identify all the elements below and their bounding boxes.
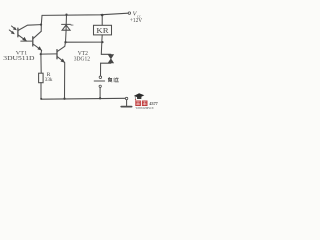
svg-text:WWW.DZDIY.CN: WWW.DZDIY.CN bbox=[136, 106, 155, 110]
svg-text:3DU511D: 3DU511D bbox=[3, 55, 35, 62]
svg-text:3DG12: 3DG12 bbox=[74, 56, 90, 62]
svg-text:+12V: +12V bbox=[130, 18, 143, 24]
svg-text:33k: 33k bbox=[45, 77, 53, 83]
svg-text:KR: KR bbox=[96, 28, 109, 35]
